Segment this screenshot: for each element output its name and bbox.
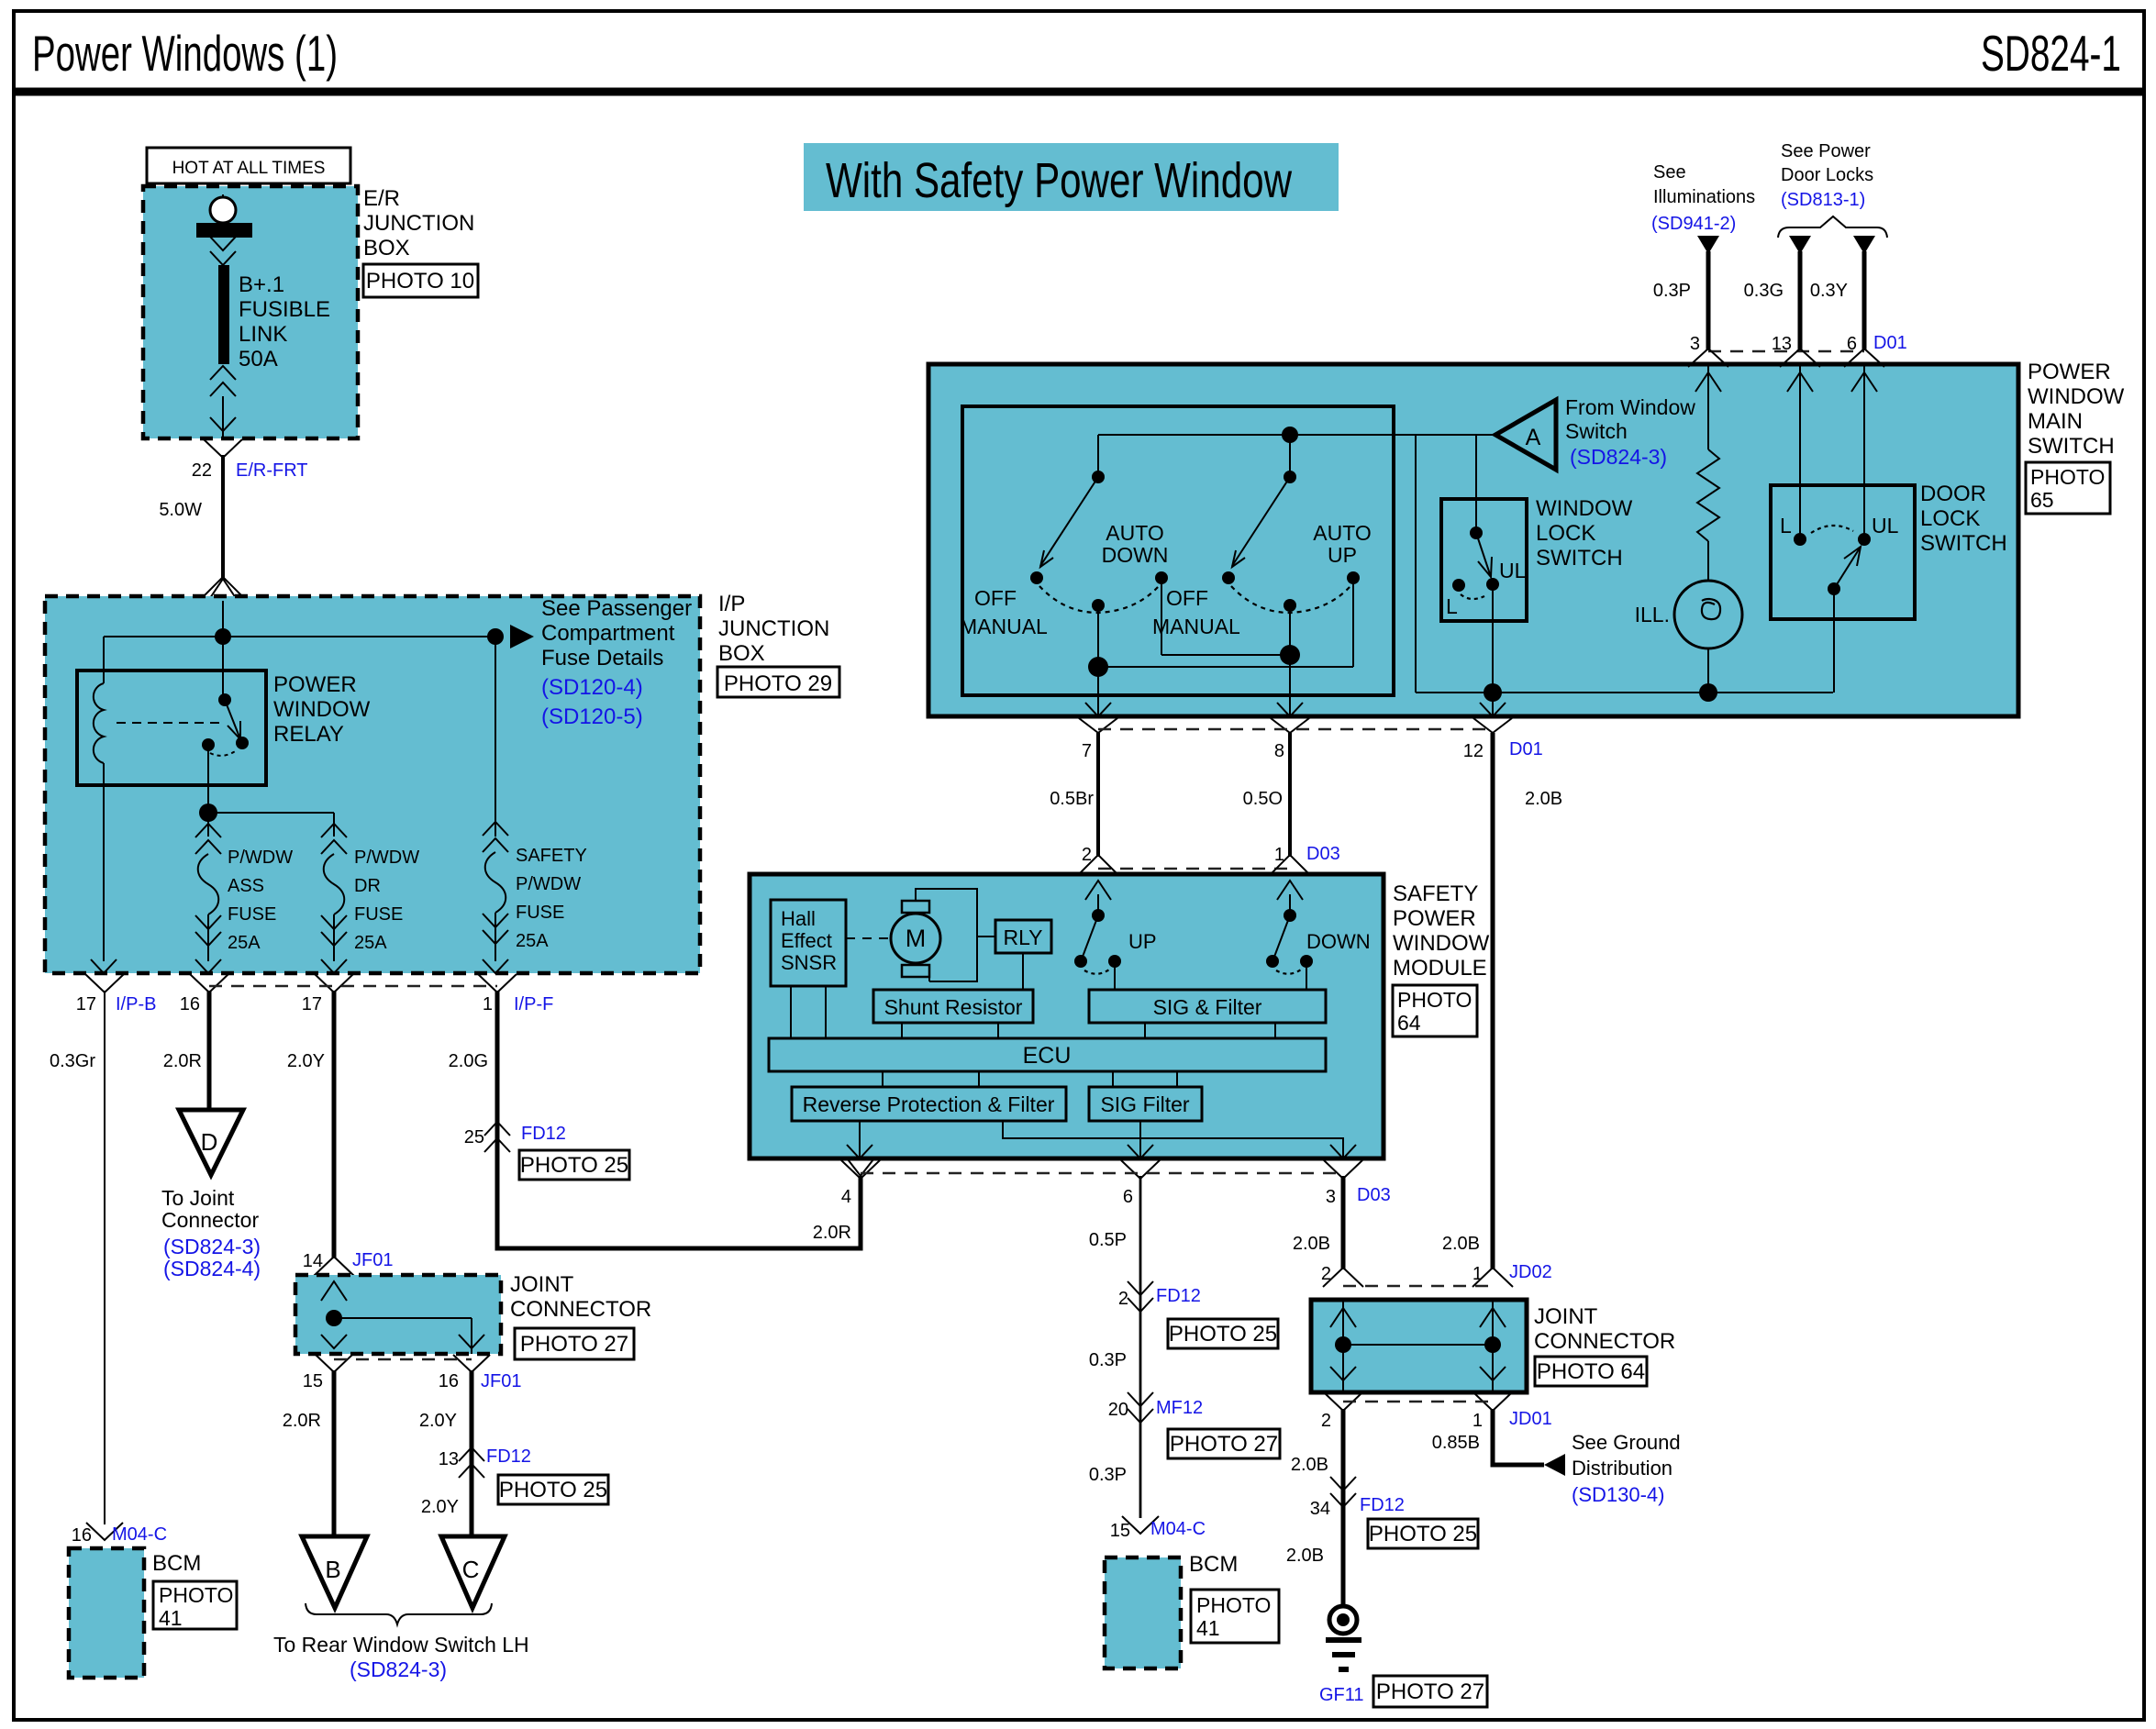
svg-text:D03: D03 — [1357, 1185, 1391, 1205]
svg-text:0.3P: 0.3P — [1653, 281, 1691, 301]
svg-text:POWER: POWER — [2028, 360, 2111, 384]
main switch box — [928, 364, 2018, 716]
BCM box left — [69, 1548, 144, 1678]
left wire down from bus — [103, 637, 105, 683]
svg-text:MF12: MF12 — [1156, 1398, 1203, 1418]
svg-text:FUSE: FUSE — [228, 904, 276, 925]
svg-text:B+.1: B+.1 — [239, 272, 284, 297]
svg-text:15: 15 — [1110, 1521, 1130, 1541]
E/R junction box — [143, 186, 358, 438]
pin 12 wire to JD02 — [1491, 733, 1495, 1269]
svg-text:12: 12 — [1463, 741, 1484, 761]
svg-text:4: 4 — [841, 1187, 851, 1207]
svg-text:Hall: Hall — [781, 907, 816, 930]
svg-text:22: 22 — [192, 460, 212, 481]
switch 1: auto down — [1097, 435, 1099, 477]
svg-text:JUNCTION: JUNCTION — [718, 616, 829, 641]
svg-text:5.0W: 5.0W — [159, 500, 202, 520]
svg-text:2.0G: 2.0G — [449, 1051, 488, 1071]
JD01 left: ground chain — [1341, 1409, 1346, 1606]
svg-text:50A: 50A — [239, 347, 278, 371]
svg-text:16: 16 — [180, 994, 200, 1014]
svg-text:Power Windows (1): Power Windows (1) — [32, 25, 338, 82]
svg-text:0.3P: 0.3P — [1089, 1465, 1127, 1485]
svg-text:OFF: OFF — [974, 586, 1017, 610]
hall effect snsr box — [771, 900, 846, 986]
svg-text:MANUAL: MANUAL — [960, 615, 1048, 638]
svg-text:A: A — [1526, 425, 1541, 450]
svg-text:To Rear Window Switch LH: To Rear Window Switch LH — [273, 1633, 529, 1657]
svg-text:PHOTO 25: PHOTO 25 — [1169, 1322, 1277, 1347]
svg-text:D01: D01 — [1509, 739, 1543, 759]
svg-text:WINDOW: WINDOW — [1393, 931, 1490, 956]
reverse protection & filter box — [792, 1087, 1066, 1121]
bottom bus of switch 1 — [1088, 657, 1108, 677]
svg-text:JOINT: JOINT — [1534, 1304, 1598, 1329]
wire 0.3G into pin 13 — [1789, 236, 1811, 254]
svg-text:CONNECTOR: CONNECTOR — [1534, 1329, 1675, 1354]
relay dashed link — [117, 722, 223, 724]
svg-text:2.0R: 2.0R — [813, 1223, 851, 1243]
svg-text:CONNECTOR: CONNECTOR — [510, 1297, 651, 1322]
svg-text:17: 17 — [302, 994, 322, 1014]
svg-text:PHOTO 25: PHOTO 25 — [520, 1153, 628, 1178]
pin 6 chain down to BCM — [1139, 1176, 1142, 1518]
wire 0.3Gr to BCM — [104, 991, 106, 1524]
connectors 15 / 16 JF01 — [316, 1355, 352, 1372]
svg-text:WINDOW: WINDOW — [273, 697, 371, 722]
svg-text:MANUAL: MANUAL — [1152, 615, 1240, 638]
bottom pin labels — [1079, 718, 1117, 733]
svg-text:PHOTO 27: PHOTO 27 — [1170, 1432, 1278, 1457]
svg-text:D01: D01 — [1873, 333, 1907, 353]
wire from I/P-H down to relay — [222, 601, 224, 700]
svg-text:BCM: BCM — [152, 1551, 201, 1576]
svg-text:E/R-FRT: E/R-FRT — [236, 460, 308, 481]
svg-text:1: 1 — [483, 994, 493, 1014]
wire C down with FD12 — [470, 1370, 474, 1536]
svg-text:Illuminations: Illuminations — [1653, 187, 1755, 207]
svg-text:25A: 25A — [516, 931, 549, 951]
svg-text:JF01: JF01 — [352, 1250, 393, 1270]
svg-text:0.3Y: 0.3Y — [1810, 281, 1848, 301]
brace over door lock wires — [1778, 216, 1887, 238]
svg-text:Distribution: Distribution — [1572, 1457, 1673, 1480]
svg-text:Effect: Effect — [781, 929, 832, 952]
svg-text:(SD824-3): (SD824-3) — [1570, 445, 1667, 469]
svg-text:41: 41 — [159, 1606, 183, 1630]
svg-text:FUSE: FUSE — [354, 904, 403, 925]
svg-text:To Joint: To Joint — [161, 1186, 235, 1210]
svg-text:LOCK: LOCK — [1536, 521, 1595, 546]
svg-text:See Ground: See Ground — [1572, 1431, 1681, 1454]
resistor — [1707, 364, 1709, 449]
svg-text:B: B — [325, 1556, 340, 1583]
svg-text:UL: UL — [1872, 514, 1899, 538]
wire from bus down at x=1543 — [1415, 435, 1417, 693]
svg-text:2.0B: 2.0B — [1525, 789, 1562, 809]
svg-text:2.0B: 2.0B — [1291, 1455, 1328, 1475]
RLY box — [995, 920, 1051, 953]
joint connector JF01 box — [295, 1275, 501, 1354]
triangle A from window switch — [1495, 400, 1556, 470]
svg-text:SNSR: SNSR — [781, 951, 837, 974]
svg-text:PHOTO: PHOTO — [159, 1583, 233, 1607]
svg-text:0.5Br: 0.5Br — [1050, 789, 1094, 809]
svg-text:I/P: I/P — [718, 592, 745, 616]
door lock switch — [1799, 364, 1801, 539]
svg-text:OFF: OFF — [1166, 586, 1208, 610]
svg-text:25A: 25A — [354, 933, 387, 953]
svg-text:SAFETY: SAFETY — [1393, 881, 1478, 906]
svg-text:ECU: ECU — [1023, 1043, 1072, 1069]
relay switch — [218, 693, 231, 706]
svg-text:PHOTO 25: PHOTO 25 — [1369, 1522, 1477, 1546]
svg-text:(SD824-3): (SD824-3) — [350, 1657, 447, 1681]
svg-text:SWITCH: SWITCH — [1536, 546, 1623, 571]
svg-text:25A: 25A — [228, 933, 261, 953]
relay output wire — [207, 745, 209, 813]
svg-text:M: M — [906, 925, 927, 952]
node junction dot — [215, 628, 231, 645]
svg-text:DOWN: DOWN — [1306, 930, 1371, 953]
svg-text:0.5P: 0.5P — [1089, 1230, 1127, 1250]
svg-text:PHOTO 64: PHOTO 64 — [1537, 1359, 1645, 1384]
fusible link B+.1 50A — [218, 265, 229, 364]
svg-text:34: 34 — [1310, 1499, 1330, 1519]
chevrons below terminal — [210, 237, 236, 250]
svg-text:LINK: LINK — [239, 322, 287, 347]
svg-text:M04-C: M04-C — [112, 1524, 167, 1545]
svg-text:(SD824-4): (SD824-4) — [163, 1257, 261, 1280]
wire B down — [332, 1370, 337, 1536]
svg-text:0.85B: 0.85B — [1432, 1433, 1480, 1453]
svg-text:FD12: FD12 — [1360, 1495, 1405, 1515]
svg-text:2: 2 — [1118, 1289, 1128, 1309]
svg-text:BOX: BOX — [718, 641, 765, 666]
ECU box — [769, 1038, 1326, 1071]
svg-text:14: 14 — [303, 1251, 323, 1271]
svg-text:Door Locks: Door Locks — [1781, 165, 1873, 185]
ground symbol GF11 — [1329, 1606, 1357, 1634]
svg-text:I/P-B: I/P-B — [116, 994, 156, 1014]
svg-text:See Passenger: See Passenger — [541, 596, 692, 621]
svg-text:From Window: From Window — [1565, 395, 1695, 419]
wire 2.0R to triangle D — [207, 991, 212, 1110]
svg-text:(SD824-3): (SD824-3) — [163, 1235, 261, 1258]
connector 22 E/R-FRT — [204, 439, 242, 458]
connections into ECU — [790, 986, 792, 1038]
svg-text:SD824-1: SD824-1 — [1981, 25, 2121, 82]
UP switch — [1097, 894, 1099, 915]
wire 2.0G chain — [495, 991, 500, 1248]
svg-text:LOCK: LOCK — [1920, 506, 1980, 531]
svg-text:WINDOW: WINDOW — [1536, 496, 1633, 521]
svg-text:2.0Y: 2.0Y — [287, 1051, 325, 1071]
svg-text:3: 3 — [1690, 334, 1700, 354]
svg-text:C: C — [462, 1556, 480, 1583]
svg-text:M04-C: M04-C — [1150, 1519, 1206, 1539]
window lock switch box — [1441, 499, 1527, 621]
svg-text:P/WDW: P/WDW — [516, 874, 581, 894]
svg-text:L: L — [1780, 514, 1792, 538]
banner With Safety Power Window — [804, 143, 1339, 211]
svg-text:POWER: POWER — [1393, 906, 1476, 931]
svg-text:UP: UP — [1128, 930, 1157, 953]
svg-text:RLY: RLY — [1003, 925, 1042, 949]
svg-text:2.0Y: 2.0Y — [419, 1411, 457, 1431]
svg-text:2.0B: 2.0B — [1293, 1234, 1330, 1254]
svg-text:With Safety Power Window: With Safety Power Window — [826, 153, 1293, 208]
ILL lamp — [1674, 581, 1742, 648]
svg-text:P/WDW: P/WDW — [354, 848, 419, 868]
svg-text:FD12: FD12 — [486, 1446, 531, 1467]
arrow to fuse details — [510, 625, 534, 648]
svg-text:17: 17 — [76, 994, 96, 1014]
svg-text:WINDOW: WINDOW — [2028, 384, 2125, 409]
wire 0.3P into pin 3 — [1697, 236, 1719, 254]
triangle D — [179, 1110, 243, 1175]
svg-text:20: 20 — [1108, 1400, 1128, 1420]
svg-text:PHOTO: PHOTO — [2030, 465, 2105, 489]
I/P junction box — [45, 596, 700, 973]
wire 2.0Y to JF01 — [332, 991, 337, 1258]
svg-text:GF11: GF11 — [1319, 1685, 1364, 1705]
svg-text:DR: DR — [354, 876, 381, 896]
svg-text:JD02: JD02 — [1509, 1262, 1552, 1282]
svg-text:2.0Y: 2.0Y — [421, 1497, 459, 1517]
svg-text:D: D — [201, 1128, 218, 1156]
svg-text:PHOTO: PHOTO — [1196, 1593, 1271, 1617]
svg-text:3: 3 — [1326, 1187, 1336, 1207]
svg-text:25: 25 — [464, 1127, 484, 1147]
svg-text:2.0B: 2.0B — [1286, 1546, 1324, 1566]
fuse P/WDW DR 25A — [333, 824, 335, 837]
svg-text:PHOTO 27: PHOTO 27 — [520, 1332, 628, 1357]
connector row under I/P box — [85, 974, 124, 992]
svg-text:AUTO: AUTO — [1313, 521, 1371, 545]
svg-text:JF01: JF01 — [481, 1371, 521, 1391]
fuse P/WDW ASS 25A — [207, 813, 209, 837]
inner switch box — [962, 406, 1394, 695]
svg-text:JOINT: JOINT — [510, 1272, 574, 1297]
svg-text:Fuse Details: Fuse Details — [541, 646, 663, 671]
svg-text:ASS: ASS — [228, 876, 264, 896]
battery terminal circle — [222, 194, 224, 223]
svg-text:(SD130-4): (SD130-4) — [1572, 1483, 1664, 1506]
svg-text:JUNCTION: JUNCTION — [363, 211, 474, 236]
svg-text:0.5O: 0.5O — [1243, 789, 1283, 809]
fuse SAFETY P/WDW 25A — [495, 637, 496, 837]
svg-text:SWITCH: SWITCH — [2028, 434, 2115, 459]
svg-text:(SD120-5): (SD120-5) — [541, 704, 643, 729]
node fuse feed dot — [487, 628, 504, 645]
svg-text:FD12: FD12 — [521, 1124, 566, 1144]
corner wire to module pin 4 — [497, 1176, 861, 1248]
module pin row — [841, 1160, 880, 1179]
switch 2: auto up — [1289, 435, 1291, 477]
horizontal bus y=694 — [104, 636, 495, 637]
wire — [222, 396, 224, 438]
triangle B — [302, 1536, 367, 1608]
svg-text:BOX: BOX — [363, 236, 410, 260]
svg-text:PHOTO 25: PHOTO 25 — [499, 1478, 607, 1502]
svg-text:FUSE: FUSE — [516, 903, 564, 923]
svg-text:AUTO: AUTO — [1106, 521, 1163, 545]
svg-text:ILL.: ILL. — [1635, 603, 1670, 626]
triangle C — [441, 1536, 505, 1608]
svg-text:UL: UL — [1499, 559, 1527, 582]
exit arrows at I/P box bottom — [91, 959, 117, 973]
below JD box — [1325, 1393, 1361, 1411]
wires down to D03 — [1096, 733, 1100, 857]
svg-text:SAFETY: SAFETY — [516, 846, 587, 866]
shunt resistor box — [873, 990, 1033, 1023]
top bus line — [1098, 434, 1495, 436]
svg-text:Shunt Resistor: Shunt Resistor — [884, 995, 1023, 1019]
svg-text:8: 8 — [1274, 741, 1284, 761]
svg-text:13: 13 — [439, 1449, 459, 1469]
svg-text:Connector: Connector — [161, 1208, 259, 1232]
svg-text:FD12: FD12 — [1156, 1286, 1201, 1306]
svg-text:FUSIBLE: FUSIBLE — [239, 297, 330, 322]
svg-text:PHOTO: PHOTO — [1397, 988, 1472, 1012]
svg-text:JD01: JD01 — [1509, 1409, 1552, 1429]
ECU outputs — [882, 1071, 884, 1087]
svg-text:See Power: See Power — [1781, 141, 1871, 161]
relay coil — [94, 683, 104, 763]
svg-text:7: 7 — [1082, 741, 1092, 761]
svg-text:DOWN: DOWN — [1102, 543, 1169, 567]
svg-text:SIG & Filter: SIG & Filter — [1153, 995, 1262, 1019]
power window relay box — [77, 671, 266, 785]
svg-text:41: 41 — [1196, 1616, 1220, 1640]
svg-text:MAIN: MAIN — [2028, 409, 2083, 434]
svg-text:(SD120-4): (SD120-4) — [541, 675, 643, 700]
brace under B C — [306, 1603, 492, 1624]
svg-text:POWER: POWER — [273, 672, 357, 697]
DOWN switch — [1289, 894, 1291, 915]
motor M — [891, 914, 940, 963]
svg-text:L: L — [1446, 594, 1458, 618]
svg-text:15: 15 — [303, 1371, 323, 1391]
svg-text:(SD941-2): (SD941-2) — [1651, 214, 1736, 234]
svg-text:Compartment: Compartment — [541, 621, 675, 646]
wire 5.0W — [221, 455, 225, 579]
svg-text:E/R: E/R — [363, 186, 400, 211]
HOT AT ALL TIMES label — [147, 148, 350, 183]
wire 0.3Y into pin 6 — [1853, 236, 1875, 254]
connector 16 M04-C — [86, 1523, 123, 1540]
svg-text:16: 16 — [72, 1525, 92, 1546]
svg-text:PHOTO 10: PHOTO 10 — [366, 269, 474, 294]
svg-text:MODULE: MODULE — [1393, 956, 1487, 981]
svg-text:D03: D03 — [1306, 844, 1340, 864]
svg-text:2.0R: 2.0R — [163, 1051, 202, 1071]
svg-text:2: 2 — [1321, 1411, 1331, 1431]
svg-text:DOOR: DOOR — [1920, 482, 1986, 506]
svg-text:16: 16 — [439, 1371, 459, 1391]
wire from A to window lock switch — [1475, 435, 1477, 533]
svg-text:0.3Gr: 0.3Gr — [50, 1051, 95, 1071]
pin 12 wire inside box — [1492, 693, 1494, 716]
svg-text:2.0B: 2.0B — [1442, 1234, 1480, 1254]
svg-text:6: 6 — [1123, 1187, 1133, 1207]
joint connector JD box — [1311, 1300, 1527, 1392]
pin 7 wire — [1097, 667, 1099, 716]
svg-text:UP: UP — [1328, 543, 1357, 567]
svg-text:HOT AT ALL TIMES: HOT AT ALL TIMES — [172, 159, 326, 178]
svg-text:1: 1 — [1473, 1411, 1483, 1431]
svg-text:PHOTO 29: PHOTO 29 — [724, 671, 832, 696]
svg-text:Reverse Protection & Filter: Reverse Protection & Filter — [803, 1092, 1055, 1116]
svg-text:BCM: BCM — [1189, 1552, 1238, 1577]
SIG filter box — [1089, 1087, 1202, 1121]
svg-text:PHOTO 27: PHOTO 27 — [1376, 1679, 1484, 1704]
svg-text:RELAY: RELAY — [273, 722, 344, 747]
svg-text:0.3P: 0.3P — [1089, 1350, 1127, 1370]
svg-text:SIG Filter: SIG Filter — [1100, 1092, 1189, 1116]
SIG & Filter box — [1089, 990, 1326, 1023]
svg-text:65: 65 — [2030, 488, 2054, 512]
svg-text:SWITCH: SWITCH — [1920, 531, 2007, 556]
svg-text:P/WDW: P/WDW — [228, 848, 293, 868]
pin 3 wire to JD02 — [1341, 1176, 1346, 1269]
pin 8 wire — [1289, 655, 1291, 716]
JD01 right: see ground distribution — [1493, 1409, 1544, 1465]
svg-text:0.3G: 0.3G — [1744, 281, 1784, 301]
svg-text:64: 64 — [1397, 1011, 1421, 1035]
svg-text:I/P-F: I/P-F — [514, 994, 553, 1014]
svg-text:See: See — [1653, 162, 1686, 183]
svg-text:2.0R: 2.0R — [283, 1411, 321, 1431]
module outputs — [859, 1121, 861, 1158]
svg-text:(SD813-1): (SD813-1) — [1781, 190, 1865, 210]
svg-text:Switch: Switch — [1565, 419, 1628, 443]
